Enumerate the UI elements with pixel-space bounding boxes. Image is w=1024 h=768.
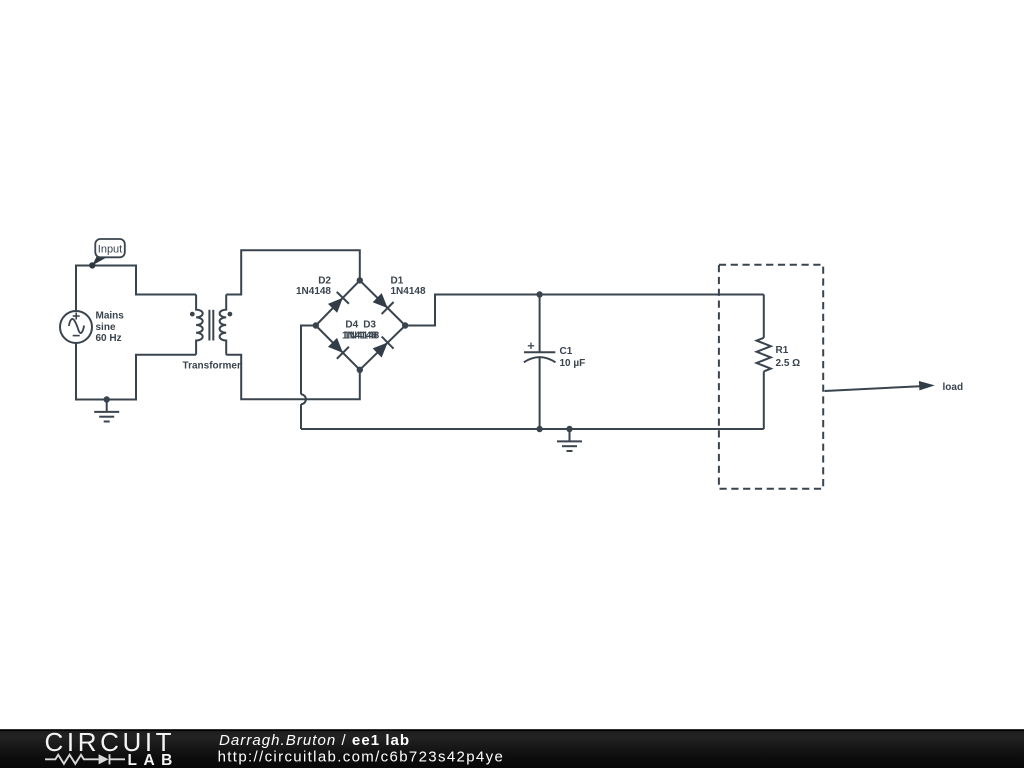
junction dot capacitor bottom [536,426,542,432]
resistor R1 bottom lead [763,371,765,429]
resistor R1 label [776,345,801,369]
footer author line [219,732,410,749]
bridge diamond edges [316,280,405,369]
svg-text:60 Hz: 60 Hz [96,333,122,344]
diode D3 [371,336,393,359]
voltage source V1 circle [60,311,92,343]
svg-text:Transformer: Transformer [183,360,241,371]
transformer label [183,360,241,371]
wire secondary top to bridge [226,250,360,294]
footer logo squiggle resistor diode [45,754,125,764]
transformer phase dot right [228,312,233,317]
diode D3 label [363,320,376,331]
ground symbol G2 [557,429,582,451]
input flag anchor dot [89,262,95,268]
svg-text:Mains: Mains [96,311,125,322]
capacitor C1 bottom lead [539,358,541,429]
svg-text:Input: Input [98,244,122,256]
voltage source plus sign [73,313,80,320]
transformer T1 core [209,310,213,341]
capacitor C1 top lead [539,295,541,353]
voltage source minus sign [73,335,80,337]
bridge node dot right [402,322,408,328]
capacitor C1 label [560,346,586,369]
svg-text:sine: sine [96,322,116,333]
wire source bottom [76,343,196,400]
input flag pointer [92,257,108,266]
svg-text:D3: D3 [363,320,376,331]
capacitor C1 curved plate [524,357,556,362]
footer bar [0,729,1024,768]
load arrow line [825,386,921,391]
resistor R1 zigzag [757,338,771,372]
svg-text:1N4148: 1N4148 [391,286,426,297]
load label [943,382,964,393]
svg-text:load: load [943,382,964,393]
svg-text:1N4148: 1N4148 [296,286,331,297]
wire secondary bottom to bridge [226,355,360,400]
svg-text:D1: D1 [391,275,404,286]
svg-text:D4: D4 [345,320,358,331]
svg-text:http://circuitlab.com/c6b723s4: http://circuitlab.com/c6b723s42p4ye [218,748,505,765]
svg-text:C1: C1 [560,346,573,357]
footer logo CIRCUIT [45,727,176,757]
bridge node dot bottom [357,367,363,373]
capacitor plus sign [528,343,534,349]
ground symbol G1 [94,400,119,422]
svg-text:10 µF: 10 µF [560,358,586,369]
diode D4 label [345,320,358,331]
voltage source sine symbol [69,319,84,333]
svg-text:LAB: LAB [128,752,179,768]
wire source top [76,266,196,312]
transformer T1 secondary winding [220,295,227,355]
dashed load box [719,265,823,489]
footer url line [218,748,505,765]
transformer T1 primary winding [196,295,203,355]
svg-text:R1: R1 [776,345,789,356]
svg-text:2.5 Ω: 2.5 Ω [776,358,801,369]
svg-text:D2: D2 [318,275,331,286]
svg-text:1N4148: 1N4148 [344,331,379,342]
load arrow head [919,381,935,390]
input flag text [98,244,122,256]
voltage source label [96,311,125,344]
wire bridge left node down with hop [301,326,316,430]
diode D4 [326,336,348,358]
wire bridge right node to top rail [405,295,764,326]
input flag box [95,239,125,257]
junction dot ground node [104,396,110,402]
wire bottom rail [301,428,764,430]
diode D4 D3 overlapping value labels [342,331,380,342]
diode D1 label [391,275,426,297]
junction dot capacitor top [536,291,542,297]
capacitor C1 top plate [524,351,555,353]
resistor R1 top lead [763,295,765,338]
diode D1 [371,292,393,314]
bridge node dot left [313,322,319,328]
transformer phase dot left [190,312,195,317]
diode D2 [326,292,349,314]
bridge node dot top [357,277,363,283]
svg-text:Darragh.Bruton / ee1 lab: Darragh.Bruton / ee1 lab [219,732,410,749]
footer logo LAB [128,752,179,768]
diode D2 label [296,275,331,297]
junction dot ground 2 [566,426,572,432]
